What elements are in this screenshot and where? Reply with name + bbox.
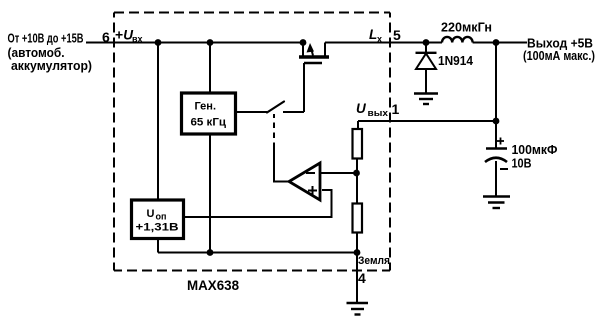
wire: comparator output (274, 148, 289, 182)
svg-text:5: 5 (393, 27, 401, 43)
svg-text:х: х (377, 34, 382, 44)
wire: R1 to divider node (356, 159, 358, 174)
capacitor C1 negative curved plate (485, 158, 507, 162)
switch S1 (PWM gating switch) (267, 102, 304, 113)
net label Lx (369, 27, 382, 44)
transistor Q1 drain lead (324, 43, 326, 56)
svg-text:65 кГц: 65 кГц (191, 117, 227, 129)
svg-text:MAX638: MAX638 (187, 277, 239, 293)
node: feedback tap junction (493, 118, 500, 125)
svg-text:U: U (147, 208, 155, 220)
IC boundary dashed box MAX638 (114, 13, 390, 271)
wire: Uоп reference to comparator non-inverting input (184, 190, 332, 217)
wire: oscillator output to switch (236, 111, 268, 113)
resistor R2 (lower feedback divider) (353, 204, 363, 233)
wire: divider node to comparator inverting input (320, 172, 357, 174)
svg-text:+1,31В: +1,31В (136, 222, 179, 234)
wire: switch contact up to MOSFET gate (303, 63, 305, 112)
svg-text:4: 4 (358, 270, 366, 286)
svg-text:6: 6 (102, 29, 110, 45)
node: feedback divider midpoint (353, 170, 360, 177)
output label "Выход +5В (100мА макс.)" (523, 36, 595, 64)
resistor R1 (upper feedback divider) (353, 129, 363, 159)
svg-text:От +10В до +15В: От +10В до +15В (8, 31, 84, 46)
node: catch diode tap on Lx (423, 39, 430, 46)
wire: oscillator bottom to internal ground rail (209, 134, 211, 253)
comparator U1 (289, 163, 320, 200)
node: ground pin 4 junction (354, 249, 361, 256)
transistor Q1 source lead (302, 43, 304, 56)
oscillator block U2 "Ген. 65 кГц" (182, 93, 236, 134)
node: output junction (493, 39, 500, 46)
svg-text:U: U (356, 101, 367, 116)
node: rail junction to Uоп reference (155, 39, 162, 46)
net label Uвых (356, 101, 388, 118)
svg-text:1N914: 1N914 (438, 53, 474, 68)
reference source block Uоп +1,31В (132, 200, 184, 239)
svg-text:L: L (369, 27, 377, 42)
ground (main external) (347, 303, 369, 315)
ground for capacitor (483, 197, 510, 209)
wire: inductor to output terminal (473, 42, 527, 44)
inductor L1 (442, 37, 473, 43)
svg-text:вых: вых (368, 108, 389, 118)
wire: divider node down to R2 (356, 173, 358, 204)
wire: output node down to filter capacitor (495, 43, 497, 149)
transistor Q1 P-MOSFET gate bar (304, 62, 322, 65)
svg-text:аккумулятор): аккумулятор) (11, 58, 92, 73)
capacitor value label 100 мкФ / 10 В (512, 142, 558, 171)
wire: rail down to Uоп reference block (157, 43, 159, 201)
wire: rail down to oscillator top (209, 43, 211, 94)
svg-text:220мкГн: 220мкГн (441, 20, 492, 35)
transistor Q1 channel bar (299, 55, 329, 59)
capacitor minus sign (500, 168, 508, 170)
svg-text:Земля: Земля (358, 255, 390, 267)
diode D1 1N914 (416, 43, 437, 94)
svg-text:1: 1 (392, 101, 400, 117)
transistor Q1 body arrow (307, 43, 315, 56)
svg-text:(100мА макс.): (100мА макс.) (523, 48, 595, 63)
net label +Uвх (115, 27, 143, 45)
input source label "От +10В до +15В (автомоб. аккумулятор)" (8, 31, 93, 74)
wire: feedback line from output to Uвых pin 1 (358, 121, 496, 129)
svg-text:вх: вх (132, 34, 143, 44)
node: oscillator ground junction on rail (207, 249, 214, 256)
ground for diode (414, 94, 438, 105)
internal ground rail (158, 252, 357, 254)
svg-text:Ген.: Ген. (195, 101, 217, 113)
dashed control link: comparator output to switch (273, 114, 275, 148)
node: rail junction to oscillator (207, 39, 214, 46)
wire: pin 4 to external ground (356, 253, 358, 304)
wire: R2 to internal ground rail (356, 233, 358, 253)
wire: MOSFET drain to Lx pin 5 and inductor (325, 42, 442, 44)
svg-text:оп: оп (156, 212, 167, 222)
wire: +Uвх input rail (pin 6) (86, 42, 304, 44)
node: MOSFET source on input rail (300, 39, 307, 46)
capacitor C1 positive plate and + sign (486, 138, 507, 149)
wire: capacitor to ground (495, 161, 497, 197)
svg-text:10В: 10В (512, 156, 532, 171)
wire: Uоп block to internal ground rail (157, 239, 159, 253)
